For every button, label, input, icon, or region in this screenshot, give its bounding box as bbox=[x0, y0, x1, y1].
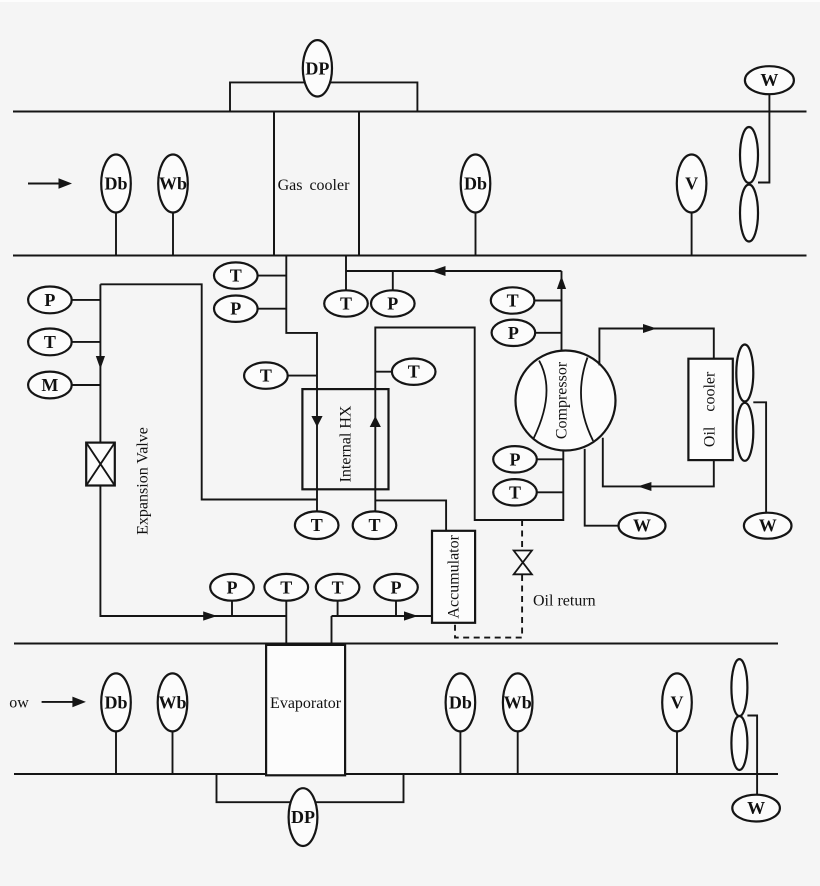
wire expansion valve to evaporator inlet bbox=[100, 486, 286, 617]
arrow right into accumulator bbox=[404, 611, 418, 620]
bottom duct lower wall bbox=[14, 773, 778, 775]
fan (oil cooler) bbox=[736, 345, 753, 461]
svg-text:T: T bbox=[509, 482, 521, 502]
air flow arrow (top duct) bbox=[28, 178, 72, 189]
svg-text:T: T bbox=[311, 515, 323, 535]
arrow right before evaporator sensors bbox=[203, 611, 217, 620]
accumulator bbox=[432, 531, 475, 623]
sensor V (top duct) bbox=[677, 155, 707, 256]
svg-text:Oil cooler: Oil cooler bbox=[702, 371, 719, 447]
wire fan to W (top duct) bbox=[758, 94, 769, 182]
label Air flow (clipped at left edge) bbox=[0, 695, 29, 712]
evaporator bbox=[266, 645, 345, 775]
sensor T (liquid line) bbox=[28, 329, 100, 356]
sensor P (gas cooler outlet) bbox=[214, 296, 286, 322]
svg-text:V: V bbox=[685, 174, 698, 194]
svg-text:Db: Db bbox=[104, 174, 127, 194]
svg-text:P: P bbox=[227, 577, 238, 597]
sensor T (HX hot inlet) bbox=[244, 362, 317, 388]
arrow down into internal HX bbox=[311, 416, 322, 427]
DP bracket (top duct) bbox=[230, 82, 417, 111]
svg-text:P: P bbox=[387, 294, 398, 314]
svg-text:Wb: Wb bbox=[504, 692, 532, 712]
sensor T stub after gas cooler inlet bbox=[345, 271, 347, 291]
wire oil return dashed from suction line bbox=[521, 520, 523, 550]
sensor T (gas cooler outlet upper) bbox=[214, 262, 286, 288]
sensor Db (bottom duct right) bbox=[446, 673, 476, 774]
svg-text:W: W bbox=[760, 70, 778, 90]
arrow down on expansion line bbox=[96, 356, 105, 369]
wire oil return dashed to accumulator bottom bbox=[455, 575, 522, 638]
arrow up inside internal HX bbox=[370, 416, 381, 427]
svg-text:V: V bbox=[671, 692, 684, 712]
svg-text:T: T bbox=[368, 515, 380, 535]
sensor T (discharge near gas cooler) bbox=[324, 290, 368, 316]
svg-text:P: P bbox=[510, 449, 521, 469]
wire oil cooler fan to W bbox=[753, 402, 766, 512]
wire bottom fan to W bbox=[747, 716, 757, 795]
svg-text:T: T bbox=[280, 577, 292, 597]
sensor W (compressor motor) bbox=[619, 513, 666, 539]
svg-text:Db: Db bbox=[104, 692, 127, 712]
svg-text:Oil return: Oil return bbox=[533, 593, 596, 610]
svg-text:DP: DP bbox=[305, 58, 329, 78]
svg-text:Db: Db bbox=[464, 174, 487, 194]
wire oil return from oil cooler bbox=[603, 438, 714, 487]
air flow arrow (bottom duct) bbox=[42, 697, 86, 708]
sensor Wb (bottom duct right) bbox=[503, 673, 533, 774]
svg-text:T: T bbox=[44, 332, 56, 352]
DP bracket (bottom duct) bbox=[217, 774, 404, 802]
fan (top duct) bbox=[740, 127, 758, 242]
svg-text:Expansion Valve: Expansion Valve bbox=[135, 427, 152, 535]
svg-text:Wb: Wb bbox=[158, 692, 186, 712]
svg-text:P: P bbox=[44, 290, 55, 310]
fan (bottom duct) bbox=[731, 659, 747, 770]
svg-text:W: W bbox=[747, 798, 765, 818]
svg-text:T: T bbox=[332, 577, 344, 597]
sensor P stub bbox=[392, 271, 394, 291]
sensor P (compressor discharge) bbox=[492, 320, 562, 346]
sensor P (evaporator inlet) bbox=[210, 574, 254, 616]
svg-text:T: T bbox=[507, 291, 519, 311]
oil return valve bbox=[514, 551, 532, 575]
sensor W (oil cooler fan) bbox=[744, 513, 792, 539]
svg-text:T: T bbox=[408, 362, 420, 382]
wire gas cooler inlet (discharge line vertical stub) bbox=[345, 256, 347, 272]
expansion valve bbox=[86, 427, 151, 535]
wire discharge horizontal bbox=[346, 270, 562, 272]
sensor T (compressor suction) bbox=[493, 479, 563, 505]
sensor P (compressor suction) bbox=[493, 446, 563, 472]
sensor Wb (bottom duct left) bbox=[158, 673, 188, 774]
arrow left on discharge line bbox=[431, 266, 446, 276]
svg-text:W: W bbox=[633, 516, 651, 536]
sensor Wb (top duct left) bbox=[158, 155, 188, 256]
svg-text:P: P bbox=[230, 299, 241, 319]
svg-text:P: P bbox=[508, 323, 519, 343]
svg-text:T: T bbox=[230, 266, 242, 286]
sensor P (evaporator outlet) bbox=[374, 574, 418, 616]
wire compressor motor to W bbox=[585, 449, 619, 526]
arrow up on discharge riser bbox=[557, 276, 566, 289]
wire discharge from compressor top bbox=[561, 271, 563, 351]
sensor M (liquid line) bbox=[28, 372, 100, 399]
svg-text:W: W bbox=[759, 516, 777, 536]
svg-text:Wb: Wb bbox=[159, 174, 187, 194]
sensor Db (top duct right) bbox=[461, 155, 491, 256]
wire evaporator outlet to accumulator bbox=[332, 616, 433, 645]
sensor P (liquid line) bbox=[28, 287, 100, 314]
sensor T (evaporator inlet) bbox=[265, 574, 309, 645]
sensor P (discharge near gas cooler) bbox=[371, 290, 415, 316]
oil cooler bbox=[688, 359, 732, 460]
svg-text:Evaporator: Evaporator bbox=[270, 695, 342, 712]
svg-text:Compressor: Compressor bbox=[554, 361, 571, 439]
bottom duct upper wall bbox=[14, 643, 778, 645]
sensor Db (bottom duct left) bbox=[101, 673, 131, 774]
arrow left on oil return bbox=[638, 482, 652, 491]
sensor W (bottom duct fan) bbox=[732, 795, 780, 822]
wire accumulator outlet to HX suction pipe bbox=[375, 500, 446, 530]
svg-text:Accumulator: Accumulator bbox=[446, 534, 463, 618]
svg-text:DP: DP bbox=[291, 807, 315, 827]
wire HX hot outlet loop to expansion line bbox=[100, 284, 317, 499]
sensor W (top duct fan) bbox=[745, 66, 794, 94]
sensor DP (top duct) bbox=[303, 40, 332, 96]
sensor Db (top duct left) bbox=[101, 155, 131, 256]
svg-text:Db: Db bbox=[449, 692, 472, 712]
svg-text:M: M bbox=[41, 375, 58, 395]
sensor V (bottom duct) bbox=[662, 673, 692, 774]
arrow right on oil supply bbox=[643, 324, 657, 333]
svg-text:T: T bbox=[260, 366, 272, 386]
svg-text:Gas cooler: Gas cooler bbox=[278, 177, 351, 194]
compressor bbox=[516, 351, 616, 451]
sensor DP (bottom duct) bbox=[289, 788, 318, 846]
sensor T (compressor discharge) bbox=[491, 287, 562, 313]
wire suction through internal HX up and over to compressor bbox=[375, 328, 563, 521]
sensor T (evaporator outlet) bbox=[316, 574, 360, 616]
svg-text:P: P bbox=[391, 577, 402, 597]
svg-text:T: T bbox=[340, 294, 352, 314]
wire expansion line vertical bbox=[99, 284, 101, 442]
svg-text:Internal HX: Internal HX bbox=[337, 405, 354, 482]
wire gas cooler outlet to internal HX bbox=[286, 256, 317, 512]
gas cooler bbox=[274, 112, 359, 256]
top duct lower wall bbox=[13, 255, 807, 257]
top duct upper wall bbox=[13, 111, 807, 113]
internal HX bbox=[302, 389, 388, 489]
sensor T (HX cold outlet) bbox=[375, 359, 435, 385]
sensor T (below HX right pipe) bbox=[353, 511, 397, 539]
sensor T (below HX left pipe) bbox=[295, 511, 339, 539]
wire oil out to oil cooler bbox=[599, 329, 713, 366]
